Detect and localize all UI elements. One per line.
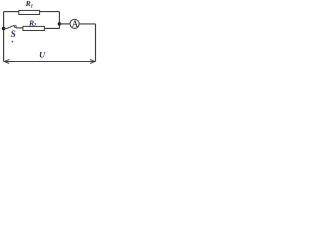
resistor R1 [19,10,40,14]
svg-text:A: A [72,19,79,29]
wire right rail [95,24,97,62]
wire ammeter to right rail [79,23,95,25]
wire left rail [3,12,5,62]
switch S stub [4,28,7,30]
node dot on left rail [2,27,6,31]
stray blue dot [12,41,14,43]
wire vertical joining branches [58,12,60,29]
svg-text:U: U [39,51,46,60]
switch S blade [7,25,15,28]
svg-text:1: 1 [31,3,34,9]
wire top from left rail to R1 [4,11,19,13]
wire junction to ammeter [59,23,70,25]
switch S terminal circle [14,26,16,28]
wire from R2 right to vertical [44,27,60,29]
wire from R1 to right [40,11,60,13]
arrowhead right [90,59,95,63]
U dimension line [4,61,95,63]
node junction dot [58,22,62,26]
svg-text:2: 2 [33,23,37,29]
resistor R2 [23,26,45,30]
wire switch to R2 [16,27,23,29]
ammeter A circle [70,19,79,28]
svg-text:S: S [11,29,16,39]
arrowhead left [4,59,9,63]
